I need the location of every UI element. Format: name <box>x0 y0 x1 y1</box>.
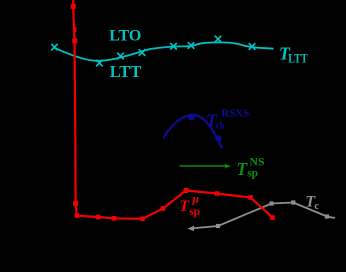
cyan x marker 2 <box>96 60 103 67</box>
svg-text:LTT: LTT <box>288 50 308 65</box>
red square marker bend <box>75 213 80 218</box>
svg-text:μ: μ <box>191 192 199 206</box>
cyan LTO/LTT structural transition curve T_LTT <box>53 42 274 60</box>
red square marker top <box>71 4 76 9</box>
label T_c <box>305 192 319 212</box>
cyan x marker 3 <box>117 53 124 60</box>
svg-text:LTT: LTT <box>110 62 142 81</box>
label T_sp^NS <box>236 156 264 179</box>
blue star marker 2 <box>215 135 222 142</box>
gray square marker x293 <box>291 200 295 204</box>
green arrow T_sp^NS <box>180 164 231 168</box>
svg-text:RSXS: RSXS <box>221 108 249 120</box>
red square marker x114 <box>112 216 117 221</box>
red square marker y203 <box>73 201 78 206</box>
label LTO <box>109 28 141 45</box>
cyan x marker 4 <box>139 49 146 56</box>
red small marker <box>73 27 76 32</box>
red square marker x163 <box>161 206 166 211</box>
svg-text:LTO: LTO <box>109 28 141 45</box>
gray triangle marker left <box>188 226 195 231</box>
label T_LTT <box>279 43 308 65</box>
label LTT <box>110 62 142 81</box>
svg-text:ch: ch <box>216 119 224 131</box>
cyan x marker 6 <box>188 42 195 49</box>
red square marker y41 <box>72 39 77 44</box>
red square marker x250 <box>248 195 253 200</box>
svg-text:NS: NS <box>249 156 264 168</box>
svg-text:sp: sp <box>247 168 258 180</box>
cyan x marker 1 <box>51 44 58 51</box>
gray square marker x327 <box>325 214 329 218</box>
label T_ch^RSXS <box>206 108 250 132</box>
blue dotted charge-order arc T_ch^RSXS <box>163 114 223 148</box>
cyan x marker 8 <box>249 43 256 50</box>
cyan x marker 7 <box>215 36 222 43</box>
red square marker x272 <box>270 215 275 220</box>
label T_sp^mu <box>179 192 200 218</box>
gray square marker x271 <box>269 201 273 205</box>
red square marker x186 <box>184 188 189 193</box>
svg-text:c: c <box>314 200 319 212</box>
svg-text:sp: sp <box>189 206 200 218</box>
red spin-order curve T_sp^mu <box>73 0 272 219</box>
blue star marker 1 <box>188 114 195 121</box>
gray superconducting dome T_c <box>191 203 336 229</box>
red square marker x142 <box>140 217 145 222</box>
gray square marker x218 <box>216 224 220 228</box>
cyan x marker 5 <box>170 43 177 50</box>
red square marker x98 <box>96 215 101 220</box>
red square marker x217 <box>215 191 220 196</box>
